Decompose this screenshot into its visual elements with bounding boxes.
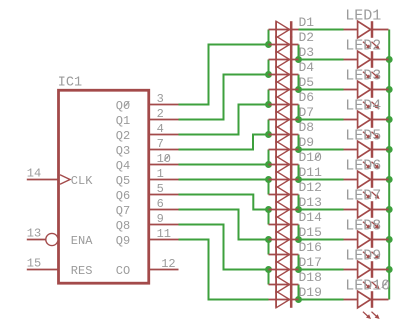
wire cathode jumper 7 — [298, 225, 300, 240]
wire to LED6 anode — [299, 179, 344, 181]
pin 14 CLK wire stub — [27, 166, 59, 180]
svg-text:LED2: LED2 — [345, 37, 381, 54]
wire LED cathode bus — [388, 30, 390, 300]
diode D6 — [269, 90, 315, 113]
svg-text:LED4: LED4 — [345, 97, 381, 114]
svg-text:Q4: Q4 — [116, 159, 130, 173]
svg-text:D10: D10 — [299, 150, 322, 165]
svg-text:ENA: ENA — [71, 234, 93, 248]
svg-text:CO: CO — [116, 264, 130, 278]
pin 2 Q1 stub — [149, 107, 179, 121]
svg-text:D3: D3 — [299, 45, 315, 60]
wire anode jumper 4 — [268, 120, 270, 135]
wire to LED5 anode — [299, 149, 344, 151]
pin 10 Q4 stub — [149, 152, 179, 166]
LED LED10 — [344, 277, 391, 319]
junction anode node 4 — [265, 131, 272, 138]
junction cathode node 5 — [295, 176, 302, 183]
wire net Q9 to D19 anode — [179, 240, 269, 300]
wire to LED1 anode — [299, 29, 344, 31]
svg-text:LED1: LED1 — [345, 7, 381, 24]
junction bus node 5 — [386, 176, 393, 183]
svg-text:D5: D5 — [299, 75, 315, 90]
pin 13 ENA wire stub — [27, 226, 46, 240]
diode D3 — [269, 45, 315, 68]
diode D18 — [269, 270, 322, 293]
ENA inversion bubble — [46, 233, 58, 245]
wire cathode jumper 8 — [298, 255, 300, 270]
wire anode jumper 7 — [268, 210, 270, 225]
wire cathode jumper 3 — [298, 105, 300, 120]
diode D14 — [269, 210, 323, 233]
LED LED8 — [344, 217, 389, 259]
wire cathode jumper 6 — [298, 195, 300, 210]
wire anode jumper 1 — [268, 30, 270, 45]
junction bus node 8 — [386, 266, 393, 273]
svg-text:15: 15 — [27, 256, 41, 270]
diode D16 — [269, 240, 322, 263]
junction bus node 7 — [386, 236, 393, 243]
svg-text:Q5: Q5 — [116, 174, 130, 188]
wire anode jumper 5 — [268, 150, 270, 165]
diode D4 — [269, 60, 315, 83]
svg-text:CLK: CLK — [71, 174, 93, 188]
wire net Q1 to D3/D4 anodes — [179, 75, 269, 120]
pin 5 Q6 stub — [149, 182, 179, 196]
junction cathode node 4 — [295, 146, 302, 153]
wire cathode jumper 5 — [298, 165, 300, 180]
pin 3 Q0 stub — [149, 92, 179, 106]
junction anode node 3 — [265, 101, 272, 108]
svg-text:11: 11 — [157, 227, 171, 241]
svg-text:12: 12 — [161, 257, 175, 271]
pin 1 Q5 stub — [149, 167, 179, 181]
diode D13 — [269, 195, 322, 218]
CLK clock triangle mark — [60, 175, 70, 185]
LED LED5 — [344, 127, 389, 169]
diode D11 — [269, 165, 323, 188]
svg-text:5: 5 — [157, 182, 164, 196]
svg-text:D11: D11 — [299, 165, 323, 180]
svg-text:D8: D8 — [299, 120, 315, 135]
svg-text:D17: D17 — [299, 255, 322, 270]
junction cathode node 8 — [295, 266, 302, 273]
svg-text:Q7: Q7 — [116, 204, 130, 218]
svg-text:4: 4 — [157, 122, 164, 136]
svg-text:D13: D13 — [299, 195, 322, 210]
wire to LED4 anode — [299, 119, 344, 121]
svg-text:LED6: LED6 — [345, 157, 381, 174]
wire to LED3 anode — [299, 89, 344, 91]
junction cathode node 1 — [295, 56, 302, 63]
svg-text:D19: D19 — [299, 285, 322, 300]
wire cathode jumper 2 — [298, 75, 300, 90]
svg-text:LED8: LED8 — [345, 217, 381, 234]
wire net Q4 to D9/D10 anodes — [179, 164, 269, 166]
svg-text:D16: D16 — [299, 240, 322, 255]
wire cathode jumper 1 — [298, 45, 300, 60]
pin 4 Q2 stub — [149, 122, 179, 136]
junction bus node 2 — [386, 86, 393, 93]
wire to LED10 anode — [299, 299, 344, 301]
wire net Q2 to D5/D6 anodes — [179, 105, 269, 135]
diode D5 — [269, 75, 315, 98]
junction cathode node 7 — [295, 236, 302, 243]
diode D8 — [269, 120, 315, 143]
svg-text:Q8: Q8 — [116, 219, 130, 233]
junction bus node 4 — [386, 146, 393, 153]
pin 11 Q9 stub — [149, 227, 179, 241]
junction cathode node 6 — [295, 206, 302, 213]
pin 6 Q7 stub — [149, 197, 179, 211]
diode D1 — [269, 15, 315, 38]
wire net Q5 to D11/D12 anodes — [179, 179, 269, 181]
LED LED9 — [344, 247, 389, 289]
wire anode jumper 6 — [268, 180, 270, 195]
svg-text:Q2: Q2 — [116, 129, 130, 143]
junction anode node 2 — [265, 71, 272, 78]
wire cathode jumper 9 — [298, 285, 300, 300]
diode D15 — [269, 225, 322, 248]
junction anode node 8 — [265, 236, 272, 243]
diode D12 — [269, 180, 322, 203]
junction cathode node 9 — [295, 296, 302, 303]
svg-text:10: 10 — [157, 152, 171, 166]
svg-text:IC1: IC1 — [58, 76, 82, 91]
wire net Q0 to D1/D2 anodes — [179, 45, 269, 105]
svg-text:7: 7 — [157, 137, 164, 151]
wire net Q7 to D15/D16 anodes — [179, 210, 269, 240]
pin 9 Q8 stub — [149, 212, 179, 226]
junction cathode node 2 — [295, 86, 302, 93]
LED LED3 — [344, 67, 389, 109]
svg-text:LED9: LED9 — [345, 247, 381, 264]
junction anode node 7 — [265, 206, 272, 213]
pin 12 CO stub — [149, 257, 179, 271]
junction anode node 5 — [265, 161, 272, 168]
svg-text:Q3: Q3 — [116, 144, 130, 158]
junction anode node 6 — [265, 176, 272, 183]
svg-text:Q6: Q6 — [116, 189, 130, 203]
junction anode node 9 — [265, 266, 272, 273]
junction bus node 3 — [386, 116, 393, 123]
svg-text:LED5: LED5 — [345, 127, 381, 144]
svg-text:3: 3 — [157, 92, 164, 106]
svg-text:Q1: Q1 — [116, 114, 130, 128]
wire anode jumper 3 — [268, 90, 270, 105]
LED LED2 — [344, 37, 389, 79]
wire net Q8 to D17/D18 anodes — [179, 225, 269, 270]
wire anode jumper 8 — [268, 240, 270, 255]
junction bus node 1 — [386, 56, 393, 63]
LED LED1 — [344, 7, 389, 49]
svg-text:LED7: LED7 — [345, 187, 381, 204]
svg-text:Q9: Q9 — [116, 234, 130, 248]
svg-text:14: 14 — [27, 166, 41, 180]
diode D10 — [269, 150, 322, 173]
LED LED6 — [344, 157, 389, 199]
junction anode node 1 — [265, 41, 272, 48]
svg-text:D18: D18 — [299, 270, 322, 285]
LED LED4 — [344, 97, 389, 139]
IC1 4017 counter body — [58, 76, 149, 284]
svg-text:13: 13 — [27, 226, 41, 240]
svg-text:D15: D15 — [299, 225, 322, 240]
svg-text:Q0: Q0 — [116, 99, 130, 113]
svg-text:RES: RES — [71, 264, 93, 278]
wire to LED9 anode — [299, 269, 344, 271]
svg-text:D6: D6 — [299, 90, 315, 105]
svg-text:D14: D14 — [299, 210, 323, 225]
wire anode jumper 9 — [268, 270, 270, 285]
svg-text:D12: D12 — [299, 180, 322, 195]
svg-text:6: 6 — [157, 197, 164, 211]
wire to LED2 anode — [299, 59, 344, 61]
wire to LED7 anode — [299, 209, 344, 211]
wire anode jumper 2 — [268, 60, 270, 75]
svg-text:2: 2 — [157, 107, 164, 121]
LED LED7 — [344, 187, 389, 229]
diode D17 — [269, 255, 322, 278]
wire to LED8 anode — [299, 239, 344, 241]
wire net Q6 to D13/D14 anodes — [179, 195, 269, 210]
svg-text:1: 1 — [157, 167, 164, 181]
junction cathode node 3 — [295, 116, 302, 123]
wire cathode jumper 4 — [298, 135, 300, 150]
diode D7 — [269, 105, 315, 128]
svg-text:D1: D1 — [299, 15, 315, 30]
svg-text:D2: D2 — [299, 30, 315, 45]
svg-text:D4: D4 — [299, 60, 315, 75]
svg-text:D7: D7 — [299, 105, 315, 120]
pin 15 RES wire stub — [27, 256, 59, 270]
diode D19 — [269, 285, 322, 308]
diode D2 — [269, 30, 315, 53]
slashed zero marks — [124, 101, 388, 288]
wire net Q3 to D7/D8 anodes — [179, 135, 269, 150]
pin 7 Q3 stub — [149, 137, 179, 151]
svg-text:LED3: LED3 — [345, 67, 381, 84]
svg-text:9: 9 — [157, 212, 164, 226]
junction bus node 6 — [386, 206, 393, 213]
svg-text:D9: D9 — [299, 135, 315, 150]
diode D9 — [269, 135, 315, 158]
